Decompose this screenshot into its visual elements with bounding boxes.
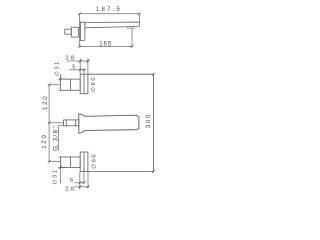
- svg-text:∅60: ∅60: [91, 153, 98, 169]
- svg-text:165: 165: [99, 42, 112, 48]
- svg-text:300: 300: [146, 113, 152, 128]
- svg-text:∅31: ∅31: [51, 169, 58, 185]
- svg-text:187.5: 187.5: [96, 7, 122, 13]
- svg-text:G 3/8”: G 3/8”: [53, 125, 60, 151]
- svg-text:2.8: 2.8: [65, 186, 74, 192]
- svg-text:∅60: ∅60: [90, 76, 97, 92]
- svg-text:5: 5: [72, 65, 76, 71]
- svg-text:120: 120: [43, 95, 49, 110]
- svg-text:2.8: 2.8: [65, 56, 74, 62]
- svg-text:120: 120: [42, 133, 48, 148]
- svg-text:∅31: ∅31: [53, 60, 60, 76]
- svg-text:5: 5: [70, 178, 74, 184]
